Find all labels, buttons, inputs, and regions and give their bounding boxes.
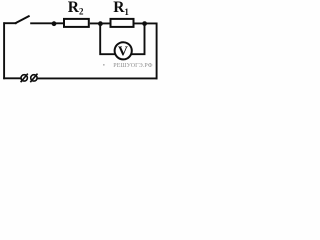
node B junction dot	[142, 21, 147, 26]
wire switch to R2	[30, 22, 63, 24]
wire left stub to switch	[3, 22, 16, 24]
wire right vertical	[156, 23, 158, 80]
resistor R1	[111, 19, 134, 27]
noise speck	[103, 64, 105, 66]
wire bottom left segment	[3, 77, 21, 79]
terminal plug X2	[30, 74, 37, 83]
terminal plug X1	[21, 74, 28, 83]
switch S1 lever	[15, 16, 30, 24]
wire voltmeter right branch	[131, 23, 144, 54]
node junction dot	[52, 21, 57, 26]
wire voltmeter left branch	[100, 23, 115, 54]
wire R2 to R1	[90, 22, 110, 24]
wire R1 to right corner	[134, 22, 158, 24]
resistor R2	[64, 19, 89, 27]
background	[0, 0, 162, 90]
svg-text:РЕШУОГЭ.РФ: РЕШУОГЭ.РФ	[113, 63, 152, 69]
voltmeter U1	[115, 42, 132, 60]
svg-text:V: V	[118, 45, 128, 60]
node A junction dot	[98, 21, 103, 26]
wire left vertical	[3, 22, 5, 79]
wire bottom right segment	[37, 77, 157, 79]
